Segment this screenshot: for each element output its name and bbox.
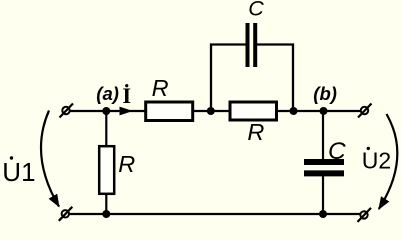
dot above U1 [10,156,13,159]
current arrow I on wire at node (a) [120,107,133,116]
svg-text:R: R [247,119,264,145]
voltage arc U2 (right, curved arrow) [379,114,398,209]
wire: vertical branch from node (a) down to resistor R [105,111,107,147]
wire: vertical branch from node (b) down to capacitor C [322,111,324,160]
capacitor C2 (shunt, vertical): top plate [304,159,344,165]
resistor R3 (shunt, vertical) [99,146,114,194]
svg-text:U2: U2 [362,148,391,174]
node (a) junction dot [102,107,110,115]
svg-text:İ: İ [122,83,131,108]
terminal bottom-left (port 1) [59,207,73,221]
bottom-right junction dot [319,210,327,218]
bottom-left junction dot [102,210,110,218]
terminal top-left (port 1) [60,104,74,118]
wire: top main wire, left terminal to R1 [69,110,145,112]
dot above U2 [367,147,370,150]
capacitor C1 (top feedback): right plate [253,23,257,67]
wire: vertical branch from resistor R down to bottom wire [105,193,107,214]
svg-text:C: C [328,138,346,165]
wire: between R1 and R2 [193,110,230,112]
wire: feedback loop right side, top capacitor down to wire [257,45,294,112]
capacitor C1 (top feedback): left plate [246,23,250,67]
svg-text:C: C [248,0,264,21]
node junction dot where top capacitor rejoins [290,107,298,115]
wire: bottom return wire [68,213,361,215]
voltage arc U1 (left, curved arrow) [41,111,59,207]
svg-text:U1: U1 [2,157,35,187]
terminal top-right (port 2) [358,104,372,118]
svg-text:(b): (b) [313,83,337,104]
resistor R1 (series, horizontal) [146,102,193,121]
capacitor C2 (shunt, vertical): bottom plate [304,170,344,176]
svg-text:(a): (a) [96,83,119,104]
wire: from capacitor C down to bottom wire [322,176,324,214]
svg-text:R: R [118,151,135,177]
node junction dot between R1 and R2 [207,107,215,115]
resistor R2 (series, horizontal) [230,102,277,120]
node (b) junction dot [320,107,328,115]
svg-text:R: R [152,75,169,101]
terminal bottom-right (port 2) [358,208,372,222]
wire: feedback loop up-left side, node to top capacitor [211,45,246,112]
wire: R2 to right terminal [277,110,362,112]
